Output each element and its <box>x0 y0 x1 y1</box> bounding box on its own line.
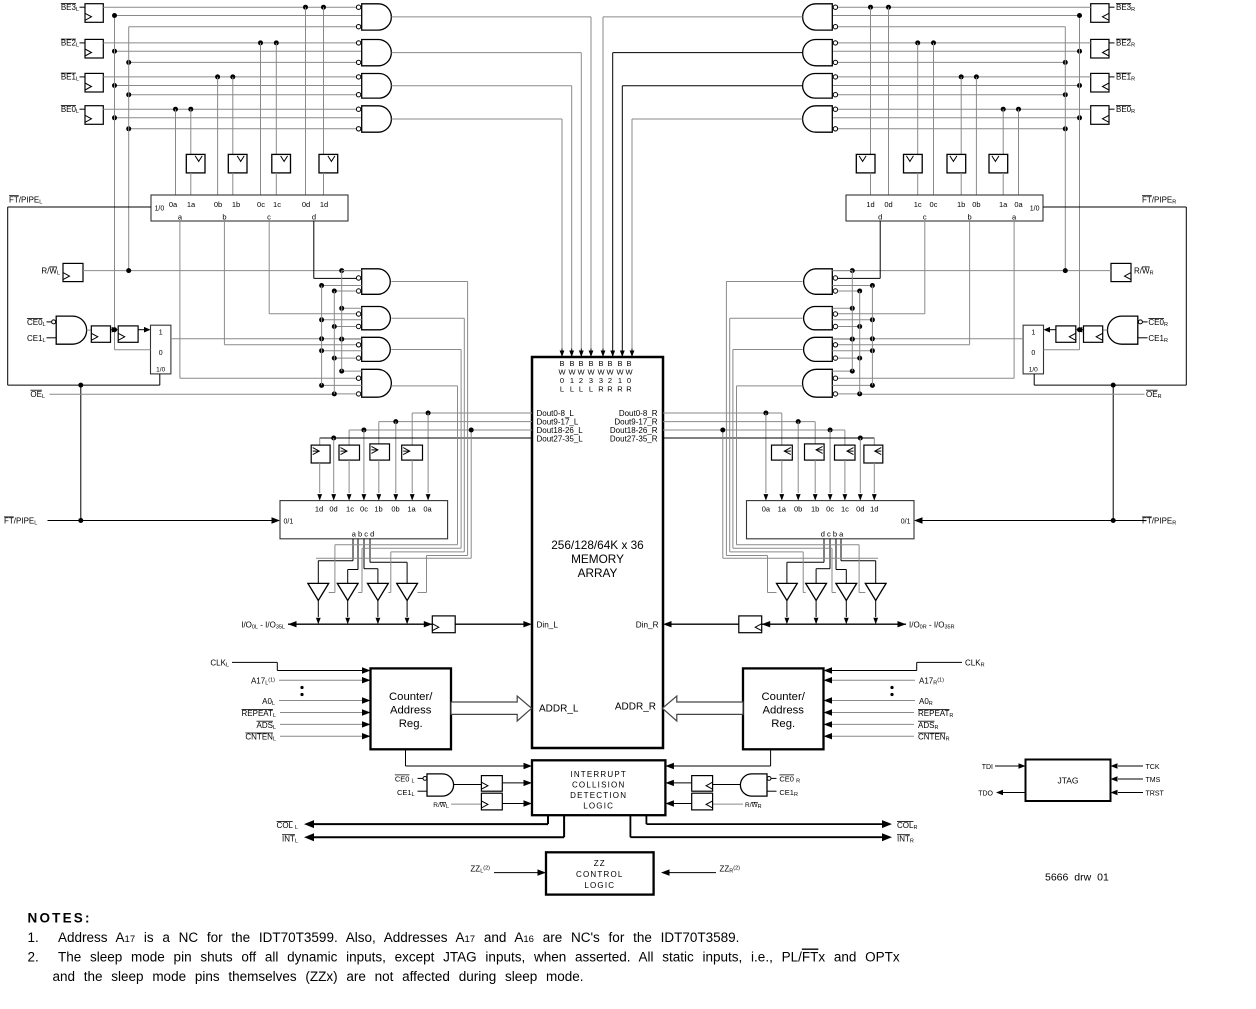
wire auxiliary feedback (right) <box>722 430 724 558</box>
junction dots CE mux output right <box>870 336 875 341</box>
AND gate CE0R/CE1R chip-enable <box>1107 316 1137 344</box>
wire CE0L stub <box>47 321 52 323</box>
svg-text:FT/PIPEL: FT/PIPEL <box>9 195 42 205</box>
arrow buffer T1R to I/O bus <box>875 601 877 618</box>
junction dot CE bus <box>112 115 117 120</box>
svg-text:Din_L: Din_L <box>537 621 559 630</box>
wire mux column 0c (left) <box>260 43 262 195</box>
wire 0-column down to output mux (right) <box>765 413 767 493</box>
wire Dout9-17_L from memory <box>379 421 532 423</box>
bus R/W (right) vertical <box>1064 27 1066 271</box>
wire register to interrupt block right <box>670 782 692 784</box>
register Din input (right) <box>739 616 762 633</box>
junction dot to 0-column <box>393 419 398 424</box>
svg-text:0a: 0a <box>423 505 432 514</box>
latch box on 1b column (right) <box>947 154 966 173</box>
wire output phase d to buffer (left) <box>369 539 371 563</box>
wire BW gate 1R bottom input from R/W bus <box>838 94 1066 96</box>
svg-text:0d: 0d <box>302 200 310 209</box>
svg-text:0b: 0b <box>214 200 222 209</box>
wire OEL distribution <box>50 393 335 395</box>
svg-text:5666 drw 01: 5666 drw 01 <box>1045 872 1109 884</box>
wire M3R input stubs <box>832 338 852 340</box>
svg-text:R/WL: R/WL <box>433 802 449 810</box>
junction dot FT/PIPER branch <box>1111 383 1116 388</box>
svg-text:DETECTION: DETECTION <box>570 791 627 800</box>
svg-text:1b: 1b <box>374 505 382 514</box>
arrow BW0L into memory array <box>561 349 563 357</box>
block MEMORY ARRAY <box>532 357 663 748</box>
wire M1R input stubs <box>832 270 852 272</box>
AND gate BW0R (byte-write enable right) <box>803 106 833 132</box>
wire BE1R label to register <box>1109 76 1115 78</box>
junction dot R/W bus <box>126 126 131 131</box>
register R/WR flip-flop <box>1111 263 1131 281</box>
mux box output select row (left) <box>280 501 448 539</box>
junction dot to 0-column right <box>763 411 768 416</box>
wire into output register 3 (right) <box>844 430 846 445</box>
wire CE0 stub interrupt left <box>418 777 423 779</box>
svg-text:1b: 1b <box>811 505 819 514</box>
register BE1L input flip-flop <box>85 73 103 92</box>
svg-text:TDO: TDO <box>978 790 993 797</box>
wire BW gate 2R middle input from CE bus <box>832 50 1079 52</box>
wire BW gate 0R bottom input from R/W bus <box>838 128 1066 130</box>
arrow buffer T4L to I/O bus <box>406 601 408 618</box>
wire mux column 1d upper (right) <box>870 7 872 154</box>
svg-text:256/128/64K x 36: 256/128/64K x 36 <box>551 538 644 552</box>
svg-text:a b c d: a b c d <box>352 530 375 539</box>
junction dots BE2L to mux columns <box>258 40 263 45</box>
wire R/W register to interrupt block <box>502 803 524 805</box>
wire BW0R gate output to memory BW input <box>632 118 803 120</box>
wire BW gate 3L middle input from CE bus <box>115 15 362 17</box>
svg-text:1a: 1a <box>407 505 416 514</box>
wire CE reg1 to reg2 with arrow <box>111 329 115 331</box>
wire BE2R label to register <box>1109 42 1115 44</box>
junction dot R/WR to R/W bus <box>1063 268 1068 273</box>
wire Dout27-35_R from memory <box>663 437 874 439</box>
svg-text:LOGIC: LOGIC <box>584 881 615 890</box>
register R/W interrupt (right) <box>692 793 713 810</box>
junction dots CE mux output <box>319 336 324 341</box>
register CE pipeline 1 (left) <box>91 326 110 342</box>
wire phase d (right) from BE mux to gate <box>879 221 881 278</box>
junction dot to 0-column right <box>828 428 833 433</box>
wire phase d (left) from BE mux to gate <box>313 221 315 278</box>
wire register to interrupt block <box>502 782 524 784</box>
wire BE0L label to register <box>80 108 86 110</box>
svg-text:0: 0 <box>1031 350 1035 357</box>
latch box on 1c column (left) <box>272 154 291 173</box>
svg-text:0a: 0a <box>762 505 771 514</box>
junction dot CE bus right top <box>1077 13 1082 18</box>
wire phase b (right) from BE mux to gate <box>969 221 971 345</box>
wire BW gate 2L bottom input from R/W bus <box>129 61 357 63</box>
svg-text:c: c <box>267 213 271 222</box>
wire TDI into JTAG <box>995 765 1019 767</box>
bus CE-registered (left) vertical <box>114 16 116 350</box>
arrow BW2R into memory array <box>612 349 614 357</box>
junction dots M2R inputs <box>870 317 875 322</box>
wire counter to interrupt logic (left) <box>405 749 407 766</box>
svg-text:INTERRUPT: INTERRUPT <box>570 770 627 779</box>
junction dots M2L inputs <box>319 317 324 322</box>
wire BW1R gate output to memory BW input <box>622 85 802 87</box>
wire ZZL into ZZ control <box>494 872 538 874</box>
wire ADSL input <box>280 723 363 725</box>
latch box on 1a column (right) <box>989 154 1008 173</box>
junction dot to 0-column <box>331 436 336 441</box>
svg-text:COL L: COL L <box>277 821 298 831</box>
vertical CE-mux distribution to M gates (right) <box>871 286 873 386</box>
wire mux column 1a lower (right) <box>1002 173 1004 195</box>
junction dot to 0-column right <box>858 436 863 441</box>
svg-text:0c: 0c <box>360 505 368 514</box>
ellipsis dots address range <box>300 686 303 689</box>
wire mux column 1b lower (left) <box>232 173 234 195</box>
svg-text:1c: 1c <box>273 200 281 209</box>
wire output phase d to buffer (right) <box>823 539 825 563</box>
wire Din_R into memory with arrow <box>670 623 739 625</box>
AND gate output-enable phase M4L <box>362 369 392 397</box>
svg-text:1/0: 1/0 <box>1030 206 1040 213</box>
wire into output register 1 (left) <box>411 413 413 445</box>
wire Dout9-17_R from memory <box>663 421 815 423</box>
wire BW gate 3R middle input from CE bus <box>832 15 1079 17</box>
wire BE3R register output row <box>838 6 1091 8</box>
buffer tri-state T2L <box>337 583 358 600</box>
wire CE1 stub interrupt left <box>418 790 428 792</box>
wire R/WR distribution <box>832 270 1111 272</box>
wire counter to interrupt logic (right) <box>770 749 772 766</box>
buffer tri-state T3R <box>806 583 827 600</box>
wire 0-column down to output mux (left) <box>363 430 365 493</box>
wire enable M4R to buffer <box>737 385 803 387</box>
register CE pipeline 1 (right) <box>1084 326 1103 342</box>
svg-text:0b: 0b <box>391 505 399 514</box>
wire 1-column register 4 to output mux (right) <box>873 463 875 493</box>
wire M3L input stubs <box>342 338 362 340</box>
wire 1-column register 2 to output mux (right) <box>814 460 816 493</box>
AND gate BW3L (byte-write enable left) <box>362 4 392 30</box>
svg-text:0b: 0b <box>972 200 980 209</box>
wire M1L input stubs <box>342 270 362 272</box>
wire BW2R gate output to memory BW input <box>613 52 803 54</box>
svg-text:CNTENL: CNTENL <box>245 733 276 743</box>
svg-text:Counter/: Counter/ <box>762 691 806 703</box>
wire BE0L register output row <box>103 108 356 110</box>
svg-text:TCK: TCK <box>1146 764 1160 771</box>
wire mux column 0d (left) <box>305 7 307 195</box>
junction dot FT/PIPEL branch <box>78 383 83 388</box>
register BE1R input flip-flop <box>1091 73 1109 92</box>
svg-text:1c: 1c <box>914 200 922 209</box>
wire mux column 0a (right) <box>1018 109 1020 195</box>
wire R/WR to register interrupt right <box>713 803 743 805</box>
wire REPEATL input <box>280 712 363 714</box>
svg-text:and the sleep mode pins themse: and the sleep mode pins themselves (ZZx)… <box>53 969 584 984</box>
AND gate output-enable phase M3R <box>804 337 833 361</box>
register CE pipeline 2 (left) <box>118 326 138 342</box>
svg-text:1: 1 <box>159 330 163 337</box>
svg-text:1/0: 1/0 <box>155 206 165 213</box>
junction dot CE bus source right <box>1077 327 1082 332</box>
wire into output register 1 (right) <box>781 413 783 445</box>
arrow BW3R into memory array <box>602 349 604 357</box>
wire mux column 1c lower (left) <box>275 173 277 195</box>
wire FT/PIPEL left vertical <box>7 207 9 385</box>
wire CE mux output distribution (right) <box>832 338 1023 340</box>
wire enable M2L to buffer <box>391 317 464 319</box>
wire TDO out of JTAG <box>1003 792 1026 794</box>
wire BW gate 0L middle input from CE bus <box>115 117 362 119</box>
junction dot auxiliary feedback <box>469 428 474 433</box>
wire M4L input stubs <box>342 370 362 372</box>
svg-text:1c: 1c <box>346 505 354 514</box>
svg-text:1d: 1d <box>315 505 323 514</box>
mux box BE select row (right) <box>846 195 1043 221</box>
svg-text:TMS: TMS <box>1146 777 1161 784</box>
wire INTR output <box>629 815 631 837</box>
svg-text:COLLISION: COLLISION <box>572 781 625 790</box>
svg-text:Reg.: Reg. <box>771 718 795 730</box>
wire CE mux output distribution (left) <box>171 338 362 340</box>
wire Dout0-8_R from memory <box>663 412 782 414</box>
wire enable M1L to buffer <box>391 281 467 283</box>
wire A17L input <box>279 679 363 681</box>
wire BW gate 1L bottom input from R/W bus <box>129 94 357 96</box>
arrow buffer T3R to I/O bus <box>815 601 817 618</box>
svg-text:1d: 1d <box>320 200 328 209</box>
wire BE2L register output row <box>103 42 356 44</box>
wire CE reg2 to pipeline mux right with arrow <box>1050 329 1056 331</box>
svg-text:1a: 1a <box>999 200 1008 209</box>
svg-text:L: L <box>589 385 593 394</box>
wire phase a (left) from BE mux to gate <box>179 221 181 378</box>
wire 1-column register 1 to output mux (left) <box>411 460 413 493</box>
svg-text:b: b <box>222 213 226 222</box>
junction dots BE1R to mux columns <box>974 74 979 79</box>
latch box on 1a column (left) <box>186 154 205 173</box>
latch box on 1b column (left) <box>228 154 247 173</box>
register output pipeline 1 (left) <box>402 445 423 460</box>
svg-text:d: d <box>878 213 882 222</box>
junction dot R/W bus right <box>1063 126 1068 131</box>
block INTERRUPT COLLISION DETECTION LOGIC <box>532 760 665 815</box>
wire BW gate 3R bottom input from R/W bus <box>838 26 1066 28</box>
AND gate BW3R (byte-write enable right) <box>803 4 833 30</box>
wire phase a (right) from BE mux to gate <box>1013 221 1015 378</box>
svg-text:FT/PIPER: FT/PIPER <box>1142 517 1176 527</box>
wire Dout18-26_L from memory <box>349 429 532 431</box>
junction dot CE bus <box>112 49 117 54</box>
svg-text:1b: 1b <box>957 200 965 209</box>
wire mux column 1b upper (right) <box>960 77 962 154</box>
junction dot CE bus <box>112 83 117 88</box>
vertical CE-mux distribution to M gates (left) <box>321 286 323 386</box>
wire CE mux select riser right <box>1033 374 1035 385</box>
svg-text:Reg.: Reg. <box>399 718 423 730</box>
wire mux column 1d upper (left) <box>323 7 325 154</box>
vertical R/W distribution to M gates (left) <box>341 271 343 372</box>
svg-text:Dout27-35_L: Dout27-35_L <box>537 435 584 444</box>
wire ADSR input <box>832 723 915 725</box>
wire into output register 2 (right) <box>814 422 816 444</box>
svg-text:The sleep mode pin shuts off a: The sleep mode pin shuts off all dynamic… <box>58 950 900 965</box>
junction dot R/W bus right <box>1063 92 1068 97</box>
wire BW gate 2R bottom input from R/W bus <box>838 61 1066 63</box>
svg-text:0b: 0b <box>794 505 802 514</box>
AND gate output-enable phase M1L <box>362 269 391 295</box>
wire enable M2R to buffer <box>730 317 803 319</box>
svg-text:0a: 0a <box>169 200 178 209</box>
wire into output register 4 (right) <box>873 438 875 445</box>
wire 1-column register 3 to output mux (right) <box>844 460 846 493</box>
wire Dout0-8_L from memory <box>412 412 532 414</box>
svg-text:c: c <box>923 213 927 222</box>
svg-text:JTAG: JTAG <box>1057 776 1078 786</box>
svg-text:ADDR_L: ADDR_L <box>539 704 579 715</box>
wire BE2L label to register <box>80 42 86 44</box>
AND gate BW1L (byte-write enable left) <box>362 74 392 99</box>
arrow buffer T2R to I/O bus <box>845 601 847 618</box>
wire mux column 1c upper (right) <box>917 43 919 154</box>
arrow BW1L into memory array <box>571 349 573 357</box>
bus R/W (left) vertical <box>128 27 130 271</box>
AND gate output-enable phase M1R <box>804 269 833 295</box>
junction dots M3R inputs <box>870 348 875 353</box>
register output pipeline 1 (right) <box>772 445 793 460</box>
mux box BE select row (left) <box>151 195 348 221</box>
wire CE0R stub <box>1143 321 1148 323</box>
svg-text:FT/PIPER: FT/PIPER <box>1142 195 1176 205</box>
wire I/O bus (right) <box>762 623 906 625</box>
svg-text:L: L <box>570 385 574 394</box>
svg-text:L: L <box>579 385 583 394</box>
junction dot auxiliary feedback right <box>720 428 725 433</box>
wire CNTENL input <box>280 735 363 737</box>
svg-text:L: L <box>560 385 564 394</box>
wire R/WL to register interrupt left <box>451 803 481 805</box>
wire phase b (left) from BE mux to gate <box>223 221 225 345</box>
svg-text:1.: 1. <box>28 930 39 945</box>
wire CNTENR input <box>832 735 915 737</box>
AND gate output-enable phase M2R <box>804 307 833 330</box>
wire into output register 2 (left) <box>378 422 380 444</box>
arrow BW2L into memory array <box>580 349 582 357</box>
wire TMS into JTAG <box>1118 778 1143 780</box>
wire mux column 1a upper (left) <box>190 109 192 154</box>
svg-text:1b: 1b <box>232 200 240 209</box>
svg-text:0d: 0d <box>884 200 892 209</box>
wire A17R input <box>832 679 916 681</box>
wire output phase a to buffer (right) <box>840 539 842 561</box>
wire 0-column down to output mux (right) <box>829 430 831 493</box>
wire CE gate output right <box>1103 329 1108 331</box>
wire CE1R stub <box>1138 337 1148 339</box>
mux box output select row (right) <box>747 501 915 539</box>
junction dot to 0-column right <box>796 419 801 424</box>
svg-text:1/0: 1/0 <box>156 367 165 374</box>
register output pipeline 4 (left) <box>311 445 330 463</box>
svg-text:ARRAY: ARRAY <box>578 566 618 580</box>
junction dot to 0-column <box>426 411 431 416</box>
svg-text:MEMORY: MEMORY <box>571 552 624 566</box>
buffer tri-state T3L <box>368 583 389 600</box>
junction dots M4R inputs <box>870 383 875 388</box>
wire CE gate to register interrupt right <box>713 784 741 786</box>
wire BW1L gate output to memory BW input <box>391 85 571 87</box>
wire M4R input stubs <box>832 370 852 372</box>
svg-text:Address: Address <box>762 705 804 717</box>
svg-text:0: 0 <box>159 350 163 357</box>
bus arrow ADDR_L into memory <box>451 696 532 721</box>
svg-text:2.: 2. <box>28 950 39 965</box>
wire BW gate 1L middle input from CE bus <box>115 85 362 87</box>
wire BE1L label to register <box>80 76 86 78</box>
junction dot CE bus top <box>112 13 117 18</box>
wire R/W register to interrupt block right <box>670 803 692 805</box>
wire 0-column down to output mux (left) <box>427 413 429 493</box>
junction dot FT/PIPEL lower <box>78 518 83 523</box>
ellipsis dots address range right <box>890 686 893 689</box>
svg-text:d c b a: d c b a <box>821 530 844 539</box>
svg-text:LOGIC: LOGIC <box>583 802 614 811</box>
junction dot R/WL to OE-matrix vertical <box>339 268 344 273</box>
wire BE1L register output row <box>103 76 356 78</box>
svg-text:0c: 0c <box>257 200 265 209</box>
wire mux column 1b lower (right) <box>960 173 962 195</box>
junction dot R/WL to R/W bus <box>126 268 131 273</box>
wire CE0 stub interrupt right <box>771 777 776 779</box>
register R/W interrupt (left) <box>481 793 502 810</box>
wire BW3L gate output to memory BW input <box>391 16 591 18</box>
wire REPEATR input <box>832 712 915 714</box>
junction dot FT/PIPER lower <box>1111 518 1116 523</box>
arrow buffer T2L to I/O bus <box>347 601 349 618</box>
AND gate CE0L/CE1L chip-enable <box>56 316 86 344</box>
wire mux column 1d lower (right) <box>870 173 872 195</box>
wire phase c (right) from BE mux to gate <box>924 221 926 314</box>
vertical OE distribution to M gates (right) <box>859 291 861 394</box>
block JTAG <box>1026 760 1111 802</box>
svg-text:TDI: TDI <box>982 764 993 771</box>
wire mux column 1c upper (left) <box>275 43 277 154</box>
wire M2R input stubs <box>832 307 852 309</box>
wire CE gate to register interrupt left <box>454 784 482 786</box>
svg-text:R: R <box>617 385 623 394</box>
wire mux column 0a (left) <box>175 109 177 195</box>
svg-text:NOTES:: NOTES: <box>28 911 92 926</box>
junction dots M1R inputs <box>870 283 875 288</box>
junction dots BE0L to mux columns <box>173 107 178 112</box>
junction dot CE bus source <box>112 327 117 332</box>
svg-text:FT/PIPEL: FT/PIPEL <box>4 517 37 527</box>
wire 1-column register 2 to output mux (left) <box>378 460 380 493</box>
svg-text:Counter/: Counter/ <box>389 691 433 703</box>
wire output phase b to buffer (left) <box>357 539 359 570</box>
wire BE0R register output row <box>838 108 1091 110</box>
junction dot R/WR to OE-matrix vertical <box>850 268 855 273</box>
wire auxiliary feedback (left) <box>470 430 472 558</box>
wire OER distribution <box>860 393 1145 395</box>
junction dots BE3L to mux columns <box>303 5 308 10</box>
wire A0L input <box>279 700 363 702</box>
svg-text:0a: 0a <box>1014 200 1023 209</box>
svg-text:0c: 0c <box>826 505 834 514</box>
svg-text:R: R <box>598 385 604 394</box>
